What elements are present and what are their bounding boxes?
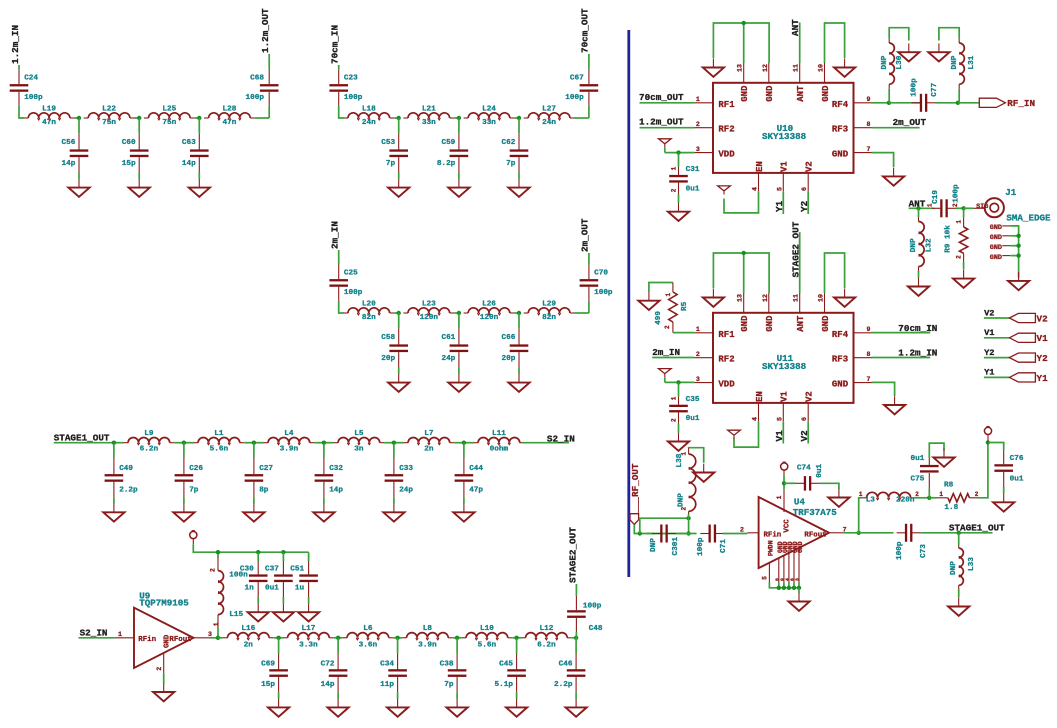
svg-text:11: 11 — [793, 64, 800, 72]
svg-text:SKY13388: SKY13388 — [762, 131, 807, 142]
svg-text:8: 8 — [867, 351, 871, 358]
inductor L31 — [951, 39, 976, 103]
svg-text:13: 13 — [737, 294, 744, 302]
wire — [825, 23, 845, 63]
junction — [397, 116, 401, 120]
wire — [517, 637, 521, 639]
svg-text:11: 11 — [793, 294, 800, 302]
svg-text:RF_OUT: RF_OUT — [630, 463, 641, 497]
svg-text:DNP: DNP — [881, 55, 889, 69]
svg-text:24p: 24p — [441, 355, 455, 363]
svg-text:PWDN: PWDN — [767, 540, 774, 556]
wire — [871, 153, 893, 167]
svg-text:L5: L5 — [354, 430, 364, 438]
ground — [928, 43, 949, 61]
svg-text:L19: L19 — [42, 105, 56, 113]
svg-text:VDD: VDD — [718, 380, 735, 390]
svg-text:100p: 100p — [896, 541, 904, 560]
inductor L32 — [910, 208, 933, 277]
capacitor C59 — [437, 118, 468, 179]
svg-text:R5: R5 — [681, 301, 689, 311]
svg-text:EN: EN — [755, 391, 765, 402]
wire — [784, 482, 796, 484]
junction — [782, 586, 786, 590]
wire — [936, 102, 958, 104]
wire — [192, 539, 194, 544]
junction — [322, 441, 326, 445]
svg-text:12: 12 — [762, 294, 769, 302]
capacitor C53 — [381, 118, 408, 179]
node V1 — [984, 328, 1048, 344]
svg-text:2: 2 — [156, 667, 163, 671]
svg-text:100p: 100p — [246, 94, 265, 102]
capacitor C45 — [495, 638, 526, 699]
capacitor C66 — [502, 313, 529, 374]
svg-text:L20: L20 — [362, 300, 376, 308]
junction — [1016, 244, 1020, 248]
wire — [929, 443, 944, 458]
svg-text:C67: C67 — [570, 75, 584, 83]
svg-text:2: 2 — [975, 491, 979, 498]
wire — [1010, 235, 1018, 237]
wire — [664, 148, 666, 153]
svg-text:7: 7 — [867, 376, 871, 383]
resistor R8 — [929, 481, 978, 512]
capacitor C60 — [122, 118, 149, 179]
svg-text:2: 2 — [210, 568, 217, 572]
power symbol circle — [781, 462, 788, 470]
ground — [387, 699, 408, 717]
ground — [788, 593, 809, 611]
svg-text:C59: C59 — [441, 139, 455, 147]
wire — [334, 637, 338, 639]
svg-text:RF1: RF1 — [718, 100, 735, 110]
capacitor C63 — [182, 118, 209, 179]
wire — [19, 106, 24, 118]
svg-text:2m_IN: 2m_IN — [330, 221, 341, 249]
svg-text:L26: L26 — [482, 300, 496, 308]
capacitor C61 — [441, 313, 468, 374]
wire — [871, 382, 894, 396]
capacitor C74 — [796, 476, 820, 491]
svg-text:7: 7 — [867, 146, 871, 153]
svg-text:1: 1 — [927, 203, 934, 207]
svg-text:2: 2 — [696, 121, 700, 128]
svg-text:L16: L16 — [241, 625, 255, 633]
wire — [1010, 245, 1018, 247]
wire — [978, 443, 988, 498]
inductor L19 — [24, 105, 75, 127]
wire — [778, 583, 780, 588]
svg-text:6: 6 — [801, 187, 808, 191]
capacitor C73 — [897, 524, 921, 542]
svg-text:SIG: SIG — [976, 203, 988, 211]
svg-text:C31: C31 — [686, 166, 700, 174]
wire — [664, 377, 666, 382]
svg-text:GND: GND — [990, 244, 1002, 252]
ground — [883, 168, 904, 186]
wire — [588, 106, 590, 118]
svg-text:RF2: RF2 — [718, 125, 734, 135]
svg-text:L22: L22 — [102, 105, 116, 113]
capacitor C58 — [381, 313, 408, 374]
wire — [783, 583, 785, 588]
svg-text:100p: 100p — [594, 289, 613, 297]
svg-text:120n: 120n — [420, 314, 439, 322]
ground — [566, 699, 587, 717]
junction — [77, 116, 81, 120]
svg-text:15p: 15p — [261, 681, 275, 689]
svg-text:C70: C70 — [594, 270, 608, 278]
capacitor C49 — [105, 443, 138, 504]
junction — [455, 636, 459, 640]
ground — [953, 270, 974, 288]
wire — [454, 117, 459, 119]
wire — [1010, 226, 1018, 278]
ground — [1008, 272, 1029, 290]
svg-text:RF4: RF4 — [832, 100, 849, 110]
svg-text:5.1p: 5.1p — [495, 681, 514, 689]
svg-text:4: 4 — [784, 578, 790, 581]
junction — [787, 586, 791, 590]
ground — [173, 504, 194, 522]
hierarchical label RF_OUT — [630, 463, 641, 524]
svg-text:L4: L4 — [284, 430, 294, 438]
svg-text:SKY13388: SKY13388 — [762, 361, 807, 372]
svg-text:C25: C25 — [344, 270, 358, 278]
wire — [114, 442, 124, 444]
svg-text:47p: 47p — [469, 486, 483, 494]
svg-text:3: 3 — [696, 146, 700, 153]
svg-text:DNP: DNP — [678, 493, 686, 507]
ground — [273, 603, 294, 621]
svg-text:1: 1 — [118, 631, 122, 638]
wire — [769, 582, 799, 588]
svg-text:70cm_IN: 70cm_IN — [330, 25, 341, 64]
ground — [189, 179, 210, 197]
svg-text:2m_IN: 2m_IN — [652, 347, 680, 358]
wire — [665, 381, 695, 383]
svg-text:70cm_OUT: 70cm_OUT — [580, 8, 591, 53]
junction — [457, 311, 461, 315]
svg-text:C63: C63 — [182, 139, 196, 147]
junction — [514, 636, 518, 640]
wire — [798, 588, 800, 593]
svg-text:RFout: RFout — [804, 532, 826, 540]
svg-text:100p: 100p — [565, 94, 584, 102]
junction — [397, 311, 401, 315]
svg-text:1: 1 — [665, 293, 672, 297]
svg-text:75n: 75n — [162, 119, 176, 127]
wire — [268, 54, 270, 70]
svg-text:V2: V2 — [1037, 313, 1049, 324]
wire — [394, 442, 404, 444]
svg-text:2: 2 — [681, 507, 688, 511]
svg-text:C49: C49 — [119, 465, 133, 473]
svg-text:20p: 20p — [381, 355, 395, 363]
svg-text:RF1: RF1 — [718, 330, 735, 340]
svg-text:2m_OUT: 2m_OUT — [580, 218, 591, 252]
wire — [783, 470, 785, 476]
svg-text:C62: C62 — [502, 139, 516, 147]
wire — [689, 448, 704, 463]
op-amp U4 TRF37A75 — [747, 489, 846, 583]
capacitor C24 — [10, 70, 43, 106]
svg-text:C48: C48 — [589, 625, 603, 633]
ground — [383, 504, 404, 522]
wire — [79, 637, 115, 639]
svg-text:C34: C34 — [380, 661, 394, 669]
wire — [339, 301, 344, 313]
svg-text:RF_IN: RF_IN — [1007, 98, 1035, 109]
wire — [799, 23, 801, 64]
ground — [508, 179, 529, 197]
svg-text:3.6n: 3.6n — [359, 641, 378, 649]
wire — [588, 253, 590, 265]
wire — [964, 207, 974, 209]
svg-text:7p: 7p — [506, 160, 516, 168]
svg-text:C37: C37 — [265, 565, 279, 573]
hierarchical label RF_IN — [979, 98, 1005, 107]
capacitor C34 — [380, 638, 407, 699]
wire — [859, 498, 862, 533]
svg-text:C19: C19 — [932, 190, 940, 204]
svg-text:L3: L3 — [866, 497, 876, 505]
svg-text:C74: C74 — [797, 464, 811, 472]
ground — [993, 494, 1014, 512]
capacitor C19 — [932, 199, 956, 217]
junction — [137, 116, 141, 120]
svg-text:Y2: Y2 — [799, 200, 810, 212]
ground — [933, 449, 954, 467]
junction — [1016, 234, 1020, 238]
svg-text:GND: GND — [765, 85, 775, 102]
inductor L10 — [461, 625, 512, 649]
wire — [522, 442, 569, 444]
svg-text:V1: V1 — [780, 161, 790, 172]
svg-text:TRF37A75: TRF37A75 — [793, 507, 838, 518]
svg-text:0ohm: 0ohm — [490, 446, 509, 454]
svg-text:4: 4 — [752, 187, 759, 191]
ground — [703, 59, 724, 77]
svg-text:33n: 33n — [422, 119, 436, 127]
ground — [668, 203, 689, 221]
svg-text:L31: L31 — [968, 55, 976, 69]
inductor L17 — [283, 625, 334, 649]
ground — [453, 504, 474, 522]
svg-text:100p: 100p — [952, 184, 960, 203]
svg-text:V2: V2 — [984, 308, 994, 318]
junction — [112, 441, 116, 445]
wire — [453, 637, 457, 639]
svg-text:GND: GND — [832, 380, 849, 390]
wire — [909, 207, 934, 209]
junction — [957, 531, 961, 535]
junction — [986, 440, 990, 444]
capacitor C77 — [912, 94, 936, 112]
wire — [688, 518, 690, 533]
svg-text:C53: C53 — [381, 139, 395, 147]
svg-text:14p: 14p — [62, 160, 76, 168]
wire — [163, 673, 165, 683]
svg-text:SMA_EDGE: SMA_EDGE — [1006, 212, 1051, 223]
svg-text:L12: L12 — [539, 625, 553, 633]
svg-text:C58: C58 — [381, 334, 395, 342]
capacitor C46 — [554, 638, 585, 699]
capacitor C68 — [246, 70, 279, 106]
wire — [18, 65, 20, 70]
ground — [68, 179, 89, 197]
ground — [243, 504, 264, 522]
inductor L11 — [474, 430, 525, 454]
wire — [394, 312, 399, 314]
svg-text:0u1: 0u1 — [1010, 476, 1024, 484]
inductor L30 — [881, 39, 904, 103]
ground — [298, 603, 319, 621]
inductor L20 — [343, 300, 394, 322]
svg-text:1: 1 — [671, 166, 678, 170]
svg-text:1: 1 — [696, 96, 700, 103]
wire — [646, 533, 653, 535]
svg-text:499: 499 — [655, 311, 663, 325]
junction — [676, 380, 680, 384]
wire — [782, 191, 784, 214]
svg-text:1.8: 1.8 — [944, 504, 958, 512]
wire — [274, 637, 279, 639]
capacitor C27 — [245, 443, 274, 504]
svg-text:Y1: Y1 — [984, 368, 994, 378]
svg-text:5.6n: 5.6n — [210, 446, 229, 454]
wire — [723, 533, 748, 535]
wire — [665, 152, 695, 154]
svg-text:24n: 24n — [362, 119, 376, 127]
wire — [464, 442, 474, 444]
capacitor C38 — [440, 638, 467, 699]
junction — [887, 101, 891, 105]
wire — [338, 637, 342, 639]
ground — [313, 504, 334, 522]
wire — [75, 117, 80, 119]
svg-text:10: 10 — [818, 294, 825, 302]
svg-text:GND: GND — [990, 254, 1002, 262]
svg-text:C45: C45 — [499, 661, 513, 669]
svg-text:C66: C66 — [502, 334, 516, 342]
wire — [825, 253, 845, 293]
svg-text:1: 1 — [213, 622, 220, 626]
svg-text:C69: C69 — [261, 661, 275, 669]
inductor L7 — [404, 430, 455, 454]
svg-text:3: 3 — [208, 631, 212, 638]
svg-text:GND: GND — [765, 315, 775, 332]
svg-text:L33: L33 — [968, 557, 976, 571]
power flag — [718, 186, 731, 195]
svg-text:C72: C72 — [321, 661, 335, 669]
junction — [336, 636, 340, 640]
svg-text:L18: L18 — [362, 105, 376, 113]
svg-text:GND: GND — [990, 234, 1002, 242]
inductor L22 — [84, 105, 135, 127]
inductor L33 — [950, 533, 976, 598]
svg-text:8p: 8p — [259, 486, 269, 494]
svg-text:C27: C27 — [259, 465, 273, 473]
svg-text:2: 2 — [696, 351, 700, 358]
capacitor C69 — [261, 638, 288, 699]
op-amp U10 SKY13388 — [695, 63, 872, 191]
capacitor C67 — [565, 70, 598, 106]
junction — [782, 481, 786, 485]
wire — [871, 332, 930, 334]
wire — [195, 117, 200, 119]
wire — [339, 106, 344, 118]
junction — [777, 586, 781, 590]
wire — [713, 253, 743, 293]
junction — [457, 116, 461, 120]
svg-text:L8: L8 — [423, 625, 433, 633]
svg-text:L10: L10 — [480, 625, 494, 633]
svg-text:C26: C26 — [189, 465, 203, 473]
wire — [254, 442, 264, 444]
wire — [640, 127, 695, 129]
wire — [782, 421, 784, 443]
wire — [807, 191, 809, 214]
svg-text:75n: 75n — [102, 119, 116, 127]
svg-text:S2_IN: S2_IN — [547, 433, 575, 444]
svg-text:C38: C38 — [440, 661, 454, 669]
svg-text:C77: C77 — [931, 82, 939, 96]
svg-text:0u1: 0u1 — [265, 585, 279, 593]
junction — [638, 531, 642, 535]
svg-text:C75: C75 — [911, 475, 925, 483]
capacitor C72 — [321, 638, 348, 699]
svg-text:STAGE1_OUT: STAGE1_OUT — [949, 522, 1005, 533]
svg-text:GND: GND — [797, 541, 804, 553]
svg-text:1: 1 — [681, 452, 688, 456]
wire — [915, 497, 930, 499]
wire — [783, 476, 785, 489]
svg-text:8: 8 — [774, 578, 780, 581]
inductor L15 — [218, 552, 248, 638]
svg-text:1.2m_OUT: 1.2m_OUT — [260, 8, 271, 53]
svg-text:20p: 20p — [502, 355, 516, 363]
inductor L38 — [676, 448, 696, 518]
capacitor C56 — [62, 118, 89, 179]
svg-text:Y2: Y2 — [1037, 353, 1049, 364]
capacitor C31 — [669, 153, 700, 203]
wire — [279, 637, 283, 639]
svg-text:1: 1 — [956, 220, 963, 224]
ground — [248, 603, 269, 621]
svg-text:GND: GND — [832, 150, 849, 160]
svg-text:0u1: 0u1 — [686, 415, 700, 423]
capacitor C35 — [669, 382, 700, 432]
junction — [574, 636, 578, 640]
svg-text:3.9n: 3.9n — [280, 446, 299, 454]
power symbol circle — [984, 427, 991, 435]
svg-text:L28: L28 — [222, 105, 236, 113]
svg-text:82n: 82n — [542, 314, 556, 322]
wire — [929, 497, 937, 499]
svg-text:12: 12 — [762, 64, 769, 72]
svg-text:3: 3 — [795, 578, 801, 581]
wire — [54, 442, 114, 444]
svg-text:RFin: RFin — [138, 636, 156, 644]
ground — [153, 683, 174, 701]
svg-text:C56: C56 — [62, 139, 76, 147]
wire — [871, 357, 930, 359]
ground — [448, 179, 469, 197]
svg-text:V2: V2 — [805, 161, 815, 172]
svg-text:C23: C23 — [344, 75, 358, 83]
